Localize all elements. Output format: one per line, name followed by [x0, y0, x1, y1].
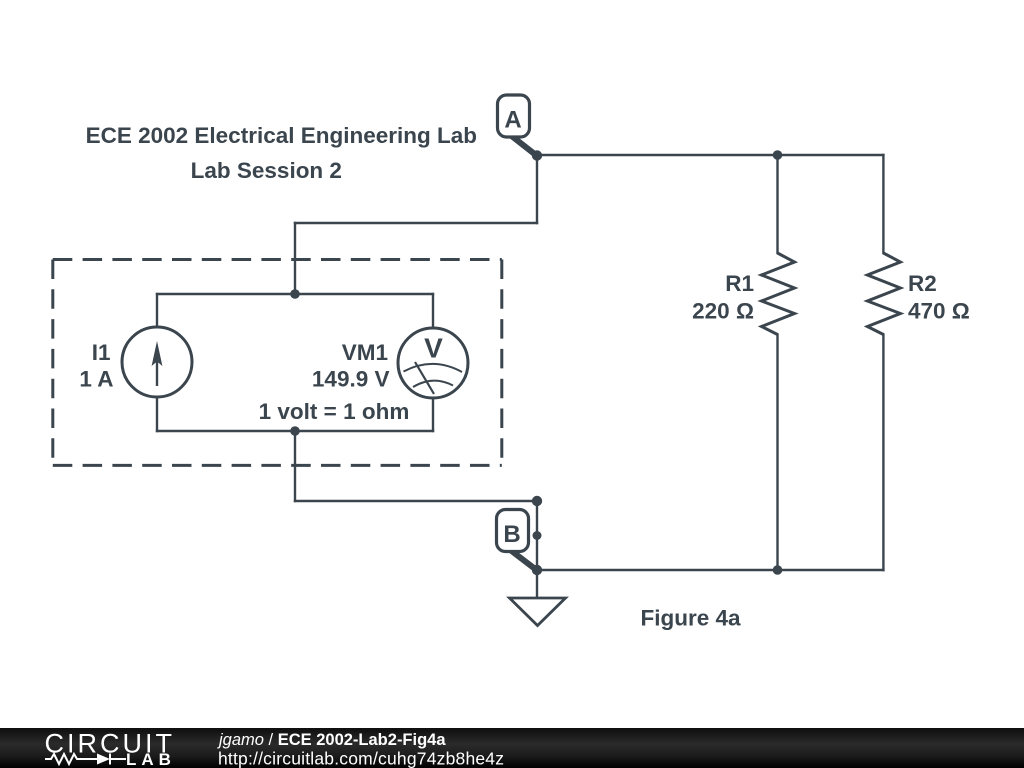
wire R2 top lead — [882, 155, 884, 253]
svg-text:I1: I1 — [92, 340, 111, 365]
junction dot R1 bottom — [773, 565, 783, 575]
svg-text:1 A: 1 A — [79, 367, 113, 392]
svg-text:470 Ω: 470 Ω — [908, 299, 970, 324]
wire node B vertical — [536, 501, 538, 570]
current source I1 circle — [122, 327, 192, 397]
wire VM1 top lead — [432, 294, 434, 329]
wire down into dashed box — [294, 223, 296, 294]
junction dot node A — [532, 150, 542, 160]
wire R1 top lead — [776, 155, 778, 253]
wire to ground — [536, 570, 538, 597]
junction dot bottom rail — [290, 426, 300, 436]
svg-text:R2: R2 — [908, 271, 937, 296]
svg-text:220 Ω: 220 Ω — [692, 299, 754, 324]
voltmeter VM1 needle — [415, 362, 434, 394]
wire horizontal to x295 — [295, 222, 537, 224]
wire R1 bottom lead — [776, 335, 778, 571]
voltmeter VM1 circle — [398, 328, 468, 398]
svg-text:ECE 2002 Electrical Engineerin: ECE 2002 Electrical Engineering Lab — [86, 123, 477, 148]
svg-text:R1: R1 — [725, 271, 754, 296]
junction dot R1 top — [773, 150, 783, 160]
junction dot top rail — [290, 289, 300, 299]
svg-text:Lab Session 2: Lab Session 2 — [191, 158, 342, 183]
ground — [510, 598, 566, 626]
voltmeter VM1 scale arc lower — [413, 381, 453, 387]
logo resistor-diode squiggle — [45, 754, 126, 765]
voltmeter VM1 scale arc upper — [404, 364, 463, 372]
svg-text:1 volt = 1 ohm: 1 volt = 1 ohm — [259, 399, 410, 424]
junction dot node B — [533, 531, 542, 540]
junction dot B top — [532, 496, 542, 506]
wire R2 bottom lead — [882, 335, 884, 571]
svg-text:V: V — [424, 333, 443, 364]
wire top rail inside box — [157, 293, 433, 295]
resistor R2 — [867, 253, 900, 335]
node B flag — [497, 510, 537, 571]
wire VM1 bottom lead — [432, 398, 434, 432]
svg-text:LAB: LAB — [126, 750, 176, 768]
wire I1 top lead — [156, 294, 158, 328]
footer bar — [0, 728, 1024, 768]
wire bottom rail inside box — [157, 430, 433, 432]
svg-text:149.9 V: 149.9 V — [312, 367, 390, 392]
dashed box — [53, 260, 502, 466]
resistor R1 — [762, 253, 795, 335]
node A flag — [498, 95, 537, 156]
current source I1 arrow — [156, 356, 158, 386]
wire I1 bottom lead — [156, 397, 158, 432]
svg-text:B: B — [503, 521, 520, 548]
svg-text:VM1: VM1 — [342, 340, 388, 365]
svg-text:Figure 4a: Figure 4a — [640, 606, 741, 631]
svg-text:jgamo / ECE 2002-Lab2-Fig4a: jgamo / ECE 2002-Lab2-Fig4a — [217, 731, 446, 749]
wire down from bottom rail — [294, 431, 296, 501]
svg-text:A: A — [504, 107, 521, 134]
wire node A to R2 top rail — [537, 154, 883, 156]
wire bottom rail to R2 — [537, 569, 883, 571]
svg-text:http://circuitlab.com/cuhg74zb: http://circuitlab.com/cuhg74zb8he4z — [218, 748, 504, 768]
wire node A down — [536, 155, 538, 223]
wire horizontal to node B column — [295, 500, 537, 502]
junction dot B rail — [532, 565, 542, 575]
